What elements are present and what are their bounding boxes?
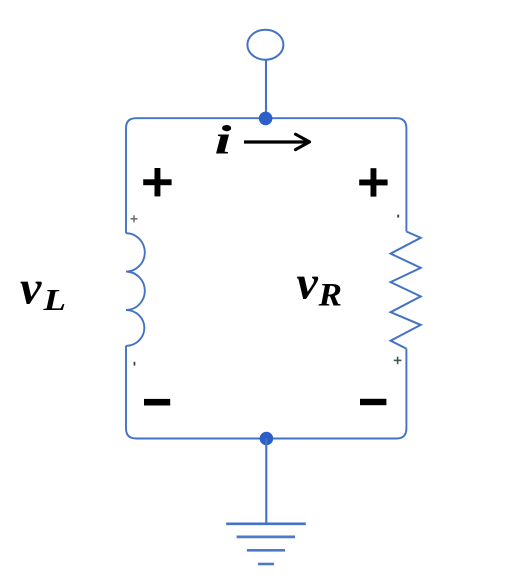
minus sign left [144, 399, 170, 406]
wire top-left loop (top side + upper left + upper right) [126, 118, 406, 233]
small minus tick bottom of inductor [134, 362, 136, 366]
small plus mark bottom of resistor [394, 357, 402, 365]
resistor R1 [391, 232, 421, 349]
plus sign right (v_R polarity) [359, 168, 387, 196]
svg-text:i: i [215, 117, 233, 163]
ground [226, 524, 306, 564]
svg-text:v: v [20, 261, 42, 314]
node B (bottom junction dot) [260, 432, 274, 446]
inductor L1 [126, 233, 145, 346]
svg-text:v: v [297, 256, 319, 309]
node A (top junction dot) [259, 112, 273, 126]
arrow current direction [244, 140, 309, 143]
wire terminal to top node [265, 59, 267, 118]
plus sign left (v_L polarity) [143, 168, 171, 196]
wire bottom node to ground [265, 439, 267, 524]
small minus tick top of resistor [397, 215, 399, 218]
svg-text:R: R [317, 277, 342, 313]
minus sign right [360, 399, 386, 405]
small plus mark top of inductor [131, 215, 138, 222]
terminal T1 (open circle) [247, 30, 283, 60]
wire bottom loop (bottom side + lower left + lower right) [126, 346, 406, 439]
svg-text:L: L [42, 282, 66, 317]
